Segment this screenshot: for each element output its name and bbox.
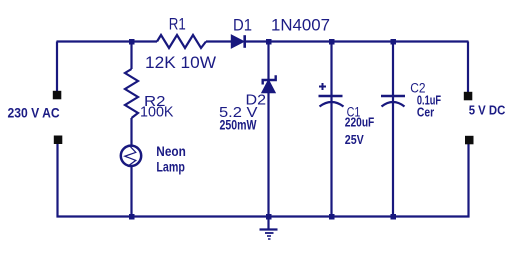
svg-text:230 V AC: 230 V AC [8,104,60,120]
label C1 [347,104,361,119]
label R1 [169,16,186,34]
label C2 value 0.1uF [417,92,441,107]
label R1 value 12K 10W [145,54,216,72]
node junction top C1 [329,39,335,45]
wire C1 branch [330,42,332,217]
node junction top C2 [391,39,397,45]
node junction top R2 [129,39,135,45]
wire neon lamp to bottom rail [130,166,132,218]
svg-text:Lamp: Lamp [156,159,185,175]
label C2 type Cer [417,104,434,119]
wire R1 to D1 [206,40,232,42]
label R2 value 100K [140,104,174,121]
label D1 part 1N4007 [271,17,330,35]
label D2 [246,93,267,109]
neon lamp [121,146,141,166]
ground [260,217,278,240]
wire left input drop [56,42,58,92]
label neon lamp Lamp [156,159,185,175]
svg-text:250mW: 250mW [220,117,258,133]
capacitor C2 [381,96,405,107]
node junction bottom D2 [266,214,272,220]
svg-text:Cer: Cer [417,104,434,119]
wire zener branch top [267,42,269,217]
label C1 value 220uF [345,115,375,130]
diode D1 [231,35,244,48]
svg-text:5 V DC: 5 V DC [469,103,506,118]
wire left input bottom [56,144,58,218]
svg-text:R1: R1 [169,16,186,34]
svg-text:1N4007: 1N4007 [271,17,330,35]
wire R2 branch top [130,42,132,70]
wire top rail left segment [57,40,158,42]
terminal input top [53,91,62,100]
label D1 [233,17,252,35]
label input 230 V AC [8,104,60,120]
wire right output drop top [467,42,469,93]
svg-text:220uF: 220uF [345,115,375,130]
svg-text:100K: 100K [140,104,174,121]
label C2 [410,80,425,95]
wire bottom rail [57,215,470,217]
svg-text:Neon: Neon [156,143,186,159]
node junction bottom C1 [329,214,335,220]
wire R2 to neon lamp [130,118,132,146]
terminal output bottom [465,136,474,145]
label output 5 V DC [469,103,506,118]
label D2 value 5.2 V [219,105,258,121]
terminal input bottom [54,136,63,145]
wire top rail right segment [244,40,469,42]
resistor R1 [157,35,206,48]
wire C2 branch [392,42,394,217]
terminal output top [464,92,473,101]
node junction bottom R2 [129,214,135,220]
svg-text:12K 10W: 12K 10W [145,54,216,72]
zener diode D2 [262,75,276,93]
node junction top D2 [266,39,272,45]
label neon lamp Neon [156,143,186,159]
svg-text:D1: D1 [233,17,252,35]
resistor R2 [125,69,138,118]
label C1 voltage 25V [345,132,364,147]
wire right output drop bottom [467,144,469,218]
label D2 power 250mW [220,117,258,133]
label R2 [144,93,166,110]
capacitor C1 [319,83,344,107]
node junction bottom C2 [391,214,397,220]
svg-text:25V: 25V [345,132,364,147]
